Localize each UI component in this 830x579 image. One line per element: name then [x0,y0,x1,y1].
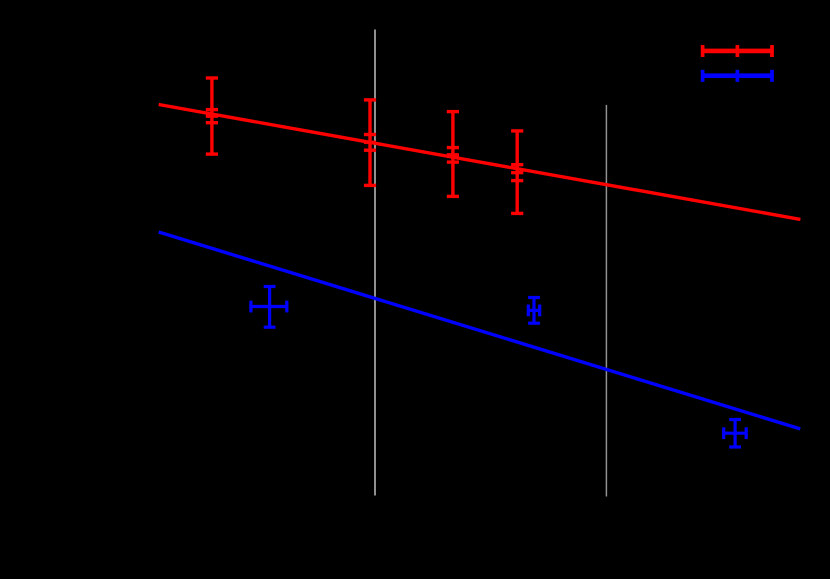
red data point 3 with inner and outer error bars and center tick [447,112,459,197]
red data point 1 with inner and outer error bars and center tick [206,78,218,154]
blue data point 1 with xy error bars [251,287,287,328]
red data point 4 with inner and outer error bars and center tick [511,131,523,214]
blue data point 3 with xy error bars [724,420,747,448]
red fit line [159,105,801,220]
gray vertical marker line 1 [374,30,376,496]
blue fit line [159,232,801,429]
legend blue error-bar sample [701,70,773,82]
red data point 2 with inner and outer error bars and center tick [364,100,376,185]
gray vertical marker line 2 [605,105,607,497]
legend red error-bar sample [701,45,773,57]
blue data point 2 with xy error bars [528,298,540,324]
